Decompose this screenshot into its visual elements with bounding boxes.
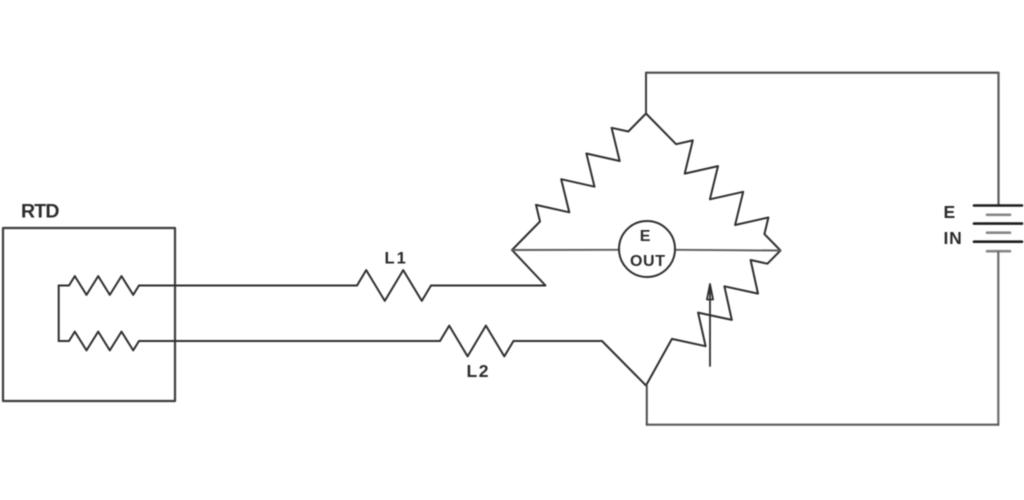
wire: right rail down to battery: [997, 73, 999, 204]
svg-text:OUT: OUT: [630, 253, 666, 270]
wire: bottom rail up to bridge bottom node: [646, 386, 648, 425]
resistor RTD top element: [59, 276, 139, 295]
battery short plate 1: [987, 214, 1010, 217]
battery short plate 3: [987, 250, 1010, 253]
svg-text:IN: IN: [944, 228, 963, 248]
svg-text:E: E: [944, 202, 956, 222]
battery E IN : long plate 1: [974, 204, 1022, 207]
wire: RTD left connector: [58, 286, 60, 342]
svg-text:E: E: [640, 228, 651, 245]
resistor L2: [440, 326, 514, 357]
battery long plate 2: [974, 222, 1022, 225]
RTD box: [3, 228, 175, 401]
resistor bridge lower-right variable arm: [646, 251, 781, 386]
wire: meter to bridge right node: [675, 249, 781, 252]
meter E OUT circle: [619, 221, 675, 277]
wire: L1 to bridge left node: [431, 250, 546, 286]
wiper arrow of variable resistor: [707, 284, 713, 366]
svg-text:L2: L2: [467, 361, 491, 381]
wire: bridge left node to meter: [512, 249, 619, 251]
wire: RTD top lead to L1: [139, 285, 357, 287]
svg-text:RTD: RTD: [21, 200, 59, 222]
resistor RTD bottom element: [59, 332, 139, 351]
svg-text:L1: L1: [385, 250, 408, 268]
wire: bridge top node to top rail: [645, 73, 647, 114]
wire: bottom rail: [647, 424, 999, 426]
wire: top rail: [646, 72, 999, 74]
resistor L1: [357, 270, 431, 301]
wire: battery bottom to bottom rail: [997, 252, 999, 425]
wire: RTD bottom lead to L2: [139, 340, 440, 342]
resistor bridge upper-right arm: [646, 114, 781, 251]
battery short plate 2: [987, 231, 1010, 234]
battery long plate 3: [974, 240, 1022, 243]
resistor bridge upper-left arm: [512, 114, 646, 251]
wire: L2 to bridge bottom node: [514, 341, 647, 386]
